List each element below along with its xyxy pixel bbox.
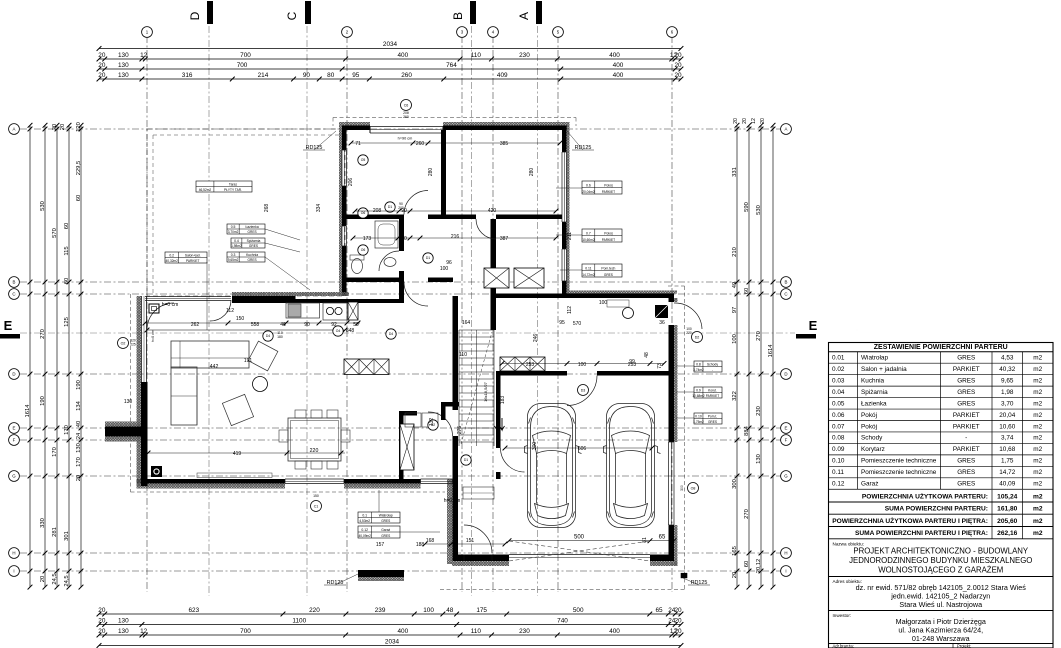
svg-text:180: 180	[277, 335, 283, 339]
svg-text:Pomieszczenie techniczne: Pomieszczenie techniczne	[861, 469, 937, 476]
svg-text:I: I	[13, 569, 14, 574]
svg-text:570: 570	[573, 321, 582, 327]
svg-text:Pokój: Pokój	[604, 231, 613, 235]
svg-text:173: 173	[363, 236, 372, 242]
svg-text:E: E	[809, 318, 818, 333]
svg-text:Pokój: Pokój	[604, 183, 613, 187]
svg-text:170: 170	[64, 425, 70, 435]
svg-text:0.2: 0.2	[169, 254, 174, 258]
svg-text:GRES: GRES	[381, 519, 390, 523]
svg-text:270: 270	[40, 329, 46, 339]
svg-text:500: 500	[573, 607, 584, 614]
svg-text:12: 12	[140, 628, 148, 635]
svg-text:ZESTAWIENIE POWIERZCHNI PARTER: ZESTAWIENIE POWIERZCHNI PARTERU	[874, 344, 1008, 351]
svg-text:130: 130	[118, 617, 129, 624]
svg-text:20,04m2: 20,04m2	[582, 190, 595, 194]
svg-text:3,70: 3,70	[1001, 400, 1014, 407]
svg-text:161,80: 161,80	[997, 506, 1018, 513]
svg-text:Spiżarnia: Spiżarnia	[861, 389, 888, 396]
svg-text:PARKIET: PARKIET	[953, 412, 980, 419]
svg-text:0.08: 0.08	[832, 435, 845, 442]
svg-text:Łazienka: Łazienka	[861, 400, 887, 407]
svg-text:Spiżarnia: Spiżarnia	[247, 239, 261, 243]
svg-text:24: 24	[76, 432, 82, 439]
svg-text:20: 20	[98, 52, 106, 59]
svg-text:h=0 cm: h=0 cm	[151, 330, 155, 342]
svg-text:1614: 1614	[768, 344, 774, 358]
svg-text:400: 400	[398, 52, 409, 59]
svg-text:246: 246	[533, 334, 539, 343]
svg-text:700: 700	[240, 628, 251, 635]
svg-text:D: D	[12, 372, 15, 377]
svg-text:20: 20	[675, 72, 683, 79]
svg-text:0.04: 0.04	[832, 389, 845, 396]
svg-text:125: 125	[64, 317, 70, 327]
svg-text:400: 400	[609, 52, 620, 59]
svg-text:281: 281	[52, 527, 58, 537]
svg-text:65: 65	[659, 535, 666, 541]
svg-text:D4: D4	[266, 334, 270, 338]
svg-text:D1: D1	[464, 458, 468, 462]
svg-text:h=90 cm: h=90 cm	[398, 137, 413, 141]
svg-text:20: 20	[40, 576, 46, 582]
svg-text:3,74: 3,74	[1001, 435, 1014, 442]
svg-text:O2: O2	[121, 341, 126, 345]
svg-text:230: 230	[519, 628, 530, 635]
svg-text:0.01: 0.01	[832, 355, 845, 362]
svg-text:168: 168	[426, 538, 435, 544]
svg-text:130: 130	[118, 628, 129, 635]
svg-text:0.07: 0.07	[832, 423, 845, 430]
svg-text:O4: O4	[336, 329, 341, 333]
svg-text:229,5: 229,5	[76, 161, 82, 176]
svg-text:175: 175	[476, 607, 487, 614]
svg-text:GRES: GRES	[957, 400, 975, 407]
svg-text:40,09: 40,09	[999, 481, 1015, 488]
svg-text:C1: C1	[314, 504, 319, 508]
svg-text:20: 20	[675, 607, 683, 614]
svg-text:0.11: 0.11	[832, 469, 844, 476]
svg-text:400: 400	[609, 628, 620, 635]
svg-text:60: 60	[64, 278, 70, 284]
svg-text:419: 419	[233, 451, 242, 457]
svg-text:220: 220	[309, 607, 320, 614]
svg-text:0.09: 0.09	[832, 446, 845, 453]
svg-text:m2: m2	[1033, 469, 1042, 476]
svg-text:130: 130	[76, 443, 82, 453]
svg-text:D2: D2	[695, 335, 700, 339]
svg-text:80: 80	[327, 72, 335, 79]
svg-text:330: 330	[40, 518, 46, 528]
svg-text:157: 157	[376, 542, 385, 548]
svg-text:606: 606	[578, 446, 587, 452]
svg-text:20: 20	[98, 628, 106, 635]
svg-text:10,68: 10,68	[999, 446, 1015, 453]
svg-text:E: E	[785, 426, 788, 431]
svg-text:Pom.t.: Pom.t.	[708, 415, 718, 419]
svg-text:D1: D1	[426, 256, 430, 260]
svg-text:239: 239	[375, 607, 386, 614]
svg-text:530: 530	[40, 201, 46, 211]
svg-text:G: G	[12, 474, 16, 479]
svg-text:B: B	[785, 280, 788, 285]
svg-text:H: H	[784, 551, 787, 556]
svg-text:0.03: 0.03	[832, 377, 845, 384]
svg-text:20: 20	[60, 124, 66, 130]
svg-text:POWIERZCHNIA UŻYTKOWA PARTERU:: POWIERZCHNIA UŻYTKOWA PARTERU:	[862, 492, 988, 500]
svg-text:24,5: 24,5	[52, 573, 58, 584]
svg-text:Wiatrołap: Wiatrołap	[379, 514, 393, 518]
svg-text:GRES: GRES	[249, 244, 258, 248]
svg-text:590: 590	[744, 202, 750, 212]
svg-text:0.05: 0.05	[832, 400, 845, 407]
svg-text:20: 20	[732, 572, 738, 578]
svg-text:100: 100	[732, 334, 738, 344]
svg-text:40: 40	[76, 421, 82, 427]
svg-text:m2: m2	[1033, 435, 1042, 442]
svg-text:301: 301	[64, 531, 70, 541]
svg-text:130: 130	[118, 52, 129, 59]
svg-text:623: 623	[189, 607, 200, 614]
svg-text:115: 115	[64, 246, 70, 255]
svg-text:322: 322	[732, 391, 738, 401]
svg-text:1100: 1100	[292, 617, 306, 624]
svg-text:270: 270	[756, 331, 762, 341]
svg-text:110: 110	[471, 628, 482, 635]
svg-text:151: 151	[466, 538, 475, 544]
svg-text:0.7: 0.7	[586, 231, 591, 235]
svg-text:m2: m2	[1033, 412, 1042, 419]
svg-text:130: 130	[118, 62, 129, 69]
svg-text:60: 60	[744, 288, 750, 294]
svg-text:20: 20	[675, 52, 683, 59]
svg-text:316: 316	[182, 72, 193, 79]
svg-text:0.3: 0.3	[231, 253, 236, 257]
svg-text:0.9: 0.9	[696, 389, 701, 393]
svg-text:130: 130	[756, 454, 762, 464]
svg-text:205,60: 205,60	[997, 518, 1018, 525]
svg-text:D: D	[188, 11, 202, 20]
svg-text:A: A	[785, 127, 788, 132]
svg-text:262,16: 262,16	[997, 530, 1018, 537]
svg-text:Projekt:: Projekt:	[957, 644, 971, 648]
svg-text:D4: D4	[389, 332, 393, 336]
svg-text:132: 132	[429, 418, 435, 427]
svg-text:0.12: 0.12	[832, 481, 845, 488]
svg-text:260: 260	[401, 72, 412, 79]
svg-text:C6: C6	[404, 103, 409, 107]
svg-text:Koryt.: Koryt.	[708, 389, 717, 393]
svg-text:1,98: 1,98	[1001, 389, 1014, 396]
svg-text:PŁYTY TAR.: PŁYTY TAR.	[224, 188, 242, 192]
svg-text:B: B	[13, 280, 16, 285]
svg-text:20,12: 20,12	[756, 559, 762, 574]
svg-text:PARKIET: PARKIET	[186, 259, 199, 263]
svg-text:280: 280	[529, 168, 535, 177]
svg-text:40,09m2: 40,09m2	[359, 534, 372, 538]
svg-text:130: 130	[124, 399, 133, 405]
svg-text:0.5: 0.5	[231, 225, 236, 229]
svg-text:40,32: 40,32	[999, 366, 1015, 373]
svg-text:m2: m2	[1033, 530, 1043, 537]
svg-text:848: 848	[346, 328, 355, 334]
svg-text:20: 20	[675, 617, 683, 624]
svg-text:71: 71	[355, 141, 361, 147]
svg-text:GRES: GRES	[248, 258, 257, 262]
svg-text:3,70m2: 3,70m2	[228, 230, 239, 234]
svg-text:SUMA POWIERZCHNI PARTERU I PIĘ: SUMA POWIERZCHNI PARTERU I PIĘTRA:	[855, 530, 988, 537]
svg-text:GRES: GRES	[248, 230, 257, 234]
svg-text:740: 740	[557, 617, 568, 624]
svg-text:-: -	[965, 435, 967, 442]
svg-text:300: 300	[732, 479, 738, 489]
svg-text:400: 400	[613, 62, 624, 69]
svg-text:210: 210	[732, 247, 738, 257]
svg-text:0.02: 0.02	[832, 366, 845, 373]
svg-text:20: 20	[675, 62, 683, 69]
svg-text:SUMA POWIERZCHNI PARTERU:: SUMA POWIERZCHNI PARTERU:	[885, 506, 988, 513]
svg-text:E: E	[4, 318, 13, 333]
svg-text:216: 216	[451, 234, 460, 240]
svg-text:530: 530	[756, 205, 762, 215]
svg-text:C: C	[12, 292, 15, 297]
svg-text:400: 400	[613, 72, 624, 79]
svg-text:Korytarz: Korytarz	[861, 446, 885, 453]
svg-text:Salon+jad.: Salon+jad.	[185, 254, 201, 258]
svg-text:GRES: GRES	[708, 420, 717, 424]
svg-text:POWIERZCHNIA UŻYTKOWA PARTERU: POWIERZCHNIA UŻYTKOWA PARTERU I PIĘTRA:	[832, 517, 988, 525]
svg-text:20: 20	[742, 118, 748, 124]
svg-text:20: 20	[760, 118, 766, 124]
svg-text:500: 500	[574, 535, 585, 541]
svg-text:PARKIET: PARKIET	[953, 366, 980, 373]
svg-text:225: 225	[130, 343, 136, 347]
svg-text:G: G	[784, 474, 788, 479]
svg-text:3,74m2: 3,74m2	[693, 368, 704, 372]
svg-text:170: 170	[52, 447, 58, 457]
svg-text:48: 48	[644, 352, 650, 358]
svg-text:GRES: GRES	[957, 458, 975, 465]
svg-text:24,5: 24,5	[64, 575, 70, 586]
svg-text:95: 95	[559, 320, 565, 326]
svg-text:165: 165	[732, 546, 738, 556]
svg-text:0.06: 0.06	[832, 412, 845, 419]
svg-text:60: 60	[64, 223, 70, 229]
svg-text:E: E	[13, 426, 16, 431]
svg-text:99: 99	[629, 359, 635, 365]
svg-text:105,24: 105,24	[997, 493, 1018, 500]
svg-text:12: 12	[751, 118, 757, 124]
svg-text:m2: m2	[1033, 481, 1042, 488]
svg-text:230: 230	[519, 52, 530, 59]
svg-text:442: 442	[210, 364, 219, 370]
svg-text:D1: D1	[388, 205, 392, 209]
svg-text:m2: m2	[1033, 506, 1043, 513]
svg-text:m2: m2	[1033, 355, 1042, 362]
svg-text:300: 300	[680, 485, 684, 491]
svg-text:150: 150	[236, 316, 245, 322]
svg-text:m2: m2	[1033, 400, 1042, 407]
svg-text:385: 385	[500, 141, 509, 147]
svg-text:334: 334	[316, 204, 322, 213]
svg-text:40,32m2: 40,32m2	[166, 259, 179, 263]
svg-text:Wiatrołap: Wiatrołap	[861, 355, 888, 362]
svg-text:280: 280	[428, 168, 434, 177]
svg-text:C: C	[784, 292, 787, 297]
svg-text:Salon + jadalnia: Salon + jadalnia	[861, 366, 907, 373]
svg-text:16x18,5/27: 16x18,5/27	[483, 381, 488, 402]
svg-text:300: 300	[532, 442, 538, 451]
svg-text:h=0 cm: h=0 cm	[162, 302, 179, 308]
svg-text:Pokój: Pokój	[861, 412, 877, 419]
svg-text:134: 134	[76, 400, 82, 410]
svg-text:164: 164	[462, 320, 471, 326]
svg-text:36: 36	[659, 320, 665, 326]
svg-text:275: 275	[457, 426, 463, 435]
svg-text:Pom.tech: Pom.tech	[601, 266, 615, 270]
svg-text:20: 20	[675, 628, 683, 635]
svg-text:D3: D3	[581, 388, 586, 392]
svg-text:270: 270	[744, 509, 750, 519]
svg-text:191: 191	[244, 358, 253, 364]
svg-text:PARKIET: PARKIET	[706, 394, 719, 398]
svg-text:GRES: GRES	[381, 534, 390, 538]
svg-text:95: 95	[352, 72, 360, 79]
svg-text:214: 214	[258, 72, 269, 79]
svg-text:C: C	[285, 11, 299, 20]
svg-text:120: 120	[76, 122, 82, 132]
svg-text:O6: O6	[361, 211, 366, 215]
svg-text:Kuchnia: Kuchnia	[246, 253, 258, 257]
svg-text:GRES: GRES	[957, 481, 975, 488]
svg-text:211: 211	[567, 232, 573, 240]
svg-text:150: 150	[313, 494, 319, 498]
svg-text:400: 400	[398, 628, 409, 635]
svg-text:PARKIET: PARKIET	[602, 238, 615, 242]
svg-text:GRES: GRES	[604, 273, 613, 277]
svg-text:46,52m2: 46,52m2	[199, 188, 212, 192]
svg-text:Stara Wieś ul. Nastrojowa: Stara Wieś ul. Nastrojowa	[899, 600, 982, 609]
svg-text:0.1: 0.1	[362, 514, 367, 518]
svg-text:112: 112	[226, 308, 234, 314]
svg-text:H: H	[12, 551, 15, 556]
svg-text:60: 60	[76, 195, 82, 201]
svg-text:PARKIET: PARKIET	[602, 190, 615, 194]
svg-text:GRES: GRES	[957, 469, 975, 476]
svg-text:0.8: 0.8	[696, 363, 701, 367]
svg-text:Adr.branża:: Adr.branża:	[833, 644, 854, 648]
svg-text:2034: 2034	[383, 41, 398, 48]
svg-text:220: 220	[686, 331, 692, 335]
svg-text:0.11: 0.11	[585, 266, 591, 270]
svg-text:PARKIET: PARKIET	[953, 446, 980, 453]
svg-text:230: 230	[756, 406, 762, 416]
svg-text:48: 48	[446, 607, 454, 614]
svg-text:m2: m2	[1033, 389, 1042, 396]
svg-text:253: 253	[526, 362, 535, 368]
svg-text:m2: m2	[1033, 493, 1043, 500]
svg-text:49: 49	[732, 282, 738, 288]
svg-text:188: 188	[416, 542, 425, 548]
svg-text:-: -	[712, 368, 713, 372]
svg-text:GRES: GRES	[957, 389, 975, 396]
svg-text:m2: m2	[1033, 518, 1043, 525]
svg-text:100: 100	[599, 300, 608, 306]
svg-text:0.10: 0.10	[695, 415, 702, 419]
svg-text:268: 268	[264, 204, 270, 213]
svg-text:1,75: 1,75	[1001, 458, 1014, 465]
svg-text:h=0 cm: h=0 cm	[444, 498, 461, 504]
svg-text:20: 20	[98, 62, 106, 69]
svg-text:570: 570	[52, 228, 58, 238]
svg-text:m2: m2	[1033, 458, 1042, 465]
svg-text:4,53: 4,53	[1001, 355, 1014, 362]
svg-text:20: 20	[98, 72, 106, 79]
svg-text:2034: 2034	[385, 638, 400, 645]
svg-text:01-248 Warszawa: 01-248 Warszawa	[912, 634, 970, 643]
svg-text:10,60m2: 10,60m2	[582, 238, 595, 242]
svg-text:170: 170	[76, 457, 82, 467]
svg-text:B: B	[451, 12, 465, 20]
svg-text:700: 700	[237, 62, 248, 69]
svg-text:10,60: 10,60	[999, 423, 1015, 430]
svg-text:PROJEKT ARCHITEKTONICZNO - BUD: PROJEKT ARCHITEKTONICZNO - BUDOWLANY	[853, 547, 1029, 556]
svg-text:0.4: 0.4	[234, 239, 239, 243]
svg-text:884: 884	[744, 425, 750, 435]
svg-text:Garaż: Garaż	[381, 528, 390, 532]
svg-text:260: 260	[403, 115, 409, 119]
svg-text:110: 110	[459, 352, 467, 358]
svg-text:60: 60	[744, 561, 750, 567]
svg-text:I: I	[785, 569, 786, 574]
svg-text:100: 100	[423, 607, 434, 614]
svg-text:12: 12	[140, 52, 148, 59]
svg-text:Inwestor:: Inwestor:	[833, 613, 852, 618]
svg-text:100: 100	[440, 266, 449, 272]
svg-text:387: 387	[500, 236, 509, 242]
svg-text:1,75m2: 1,75m2	[693, 420, 704, 424]
svg-text:20,04: 20,04	[999, 412, 1015, 419]
svg-text:14,72: 14,72	[999, 469, 1015, 476]
svg-text:Pomieszczenie techniczne: Pomieszczenie techniczne	[861, 458, 937, 465]
svg-text:Łazienka: Łazienka	[245, 225, 258, 229]
svg-text:Schody: Schody	[861, 435, 883, 442]
svg-text:183: 183	[500, 396, 506, 405]
svg-text:A: A	[517, 12, 531, 20]
svg-text:GRES: GRES	[957, 355, 975, 362]
svg-text:9,65m2: 9,65m2	[228, 258, 239, 262]
svg-text:764: 764	[446, 62, 457, 69]
svg-text:1614: 1614	[25, 404, 31, 418]
svg-text:0.10: 0.10	[832, 458, 845, 465]
svg-text:90: 90	[303, 72, 311, 79]
svg-text:110: 110	[471, 52, 482, 59]
svg-text:PARKIET: PARKIET	[953, 423, 980, 430]
svg-text:65: 65	[655, 607, 663, 614]
svg-text:190: 190	[40, 396, 46, 406]
svg-text:409: 409	[497, 72, 508, 79]
svg-text:Pokój: Pokój	[861, 423, 877, 430]
svg-text:20: 20	[733, 118, 739, 124]
svg-text:97: 97	[732, 307, 738, 313]
svg-text:20: 20	[98, 607, 106, 614]
svg-text:4,53m2: 4,53m2	[359, 519, 370, 523]
svg-text:10,68m2: 10,68m2	[692, 394, 705, 398]
svg-text:D: D	[784, 372, 787, 377]
svg-text:m2: m2	[1033, 377, 1042, 384]
svg-text:112: 112	[567, 306, 573, 314]
svg-text:260: 260	[416, 141, 425, 147]
